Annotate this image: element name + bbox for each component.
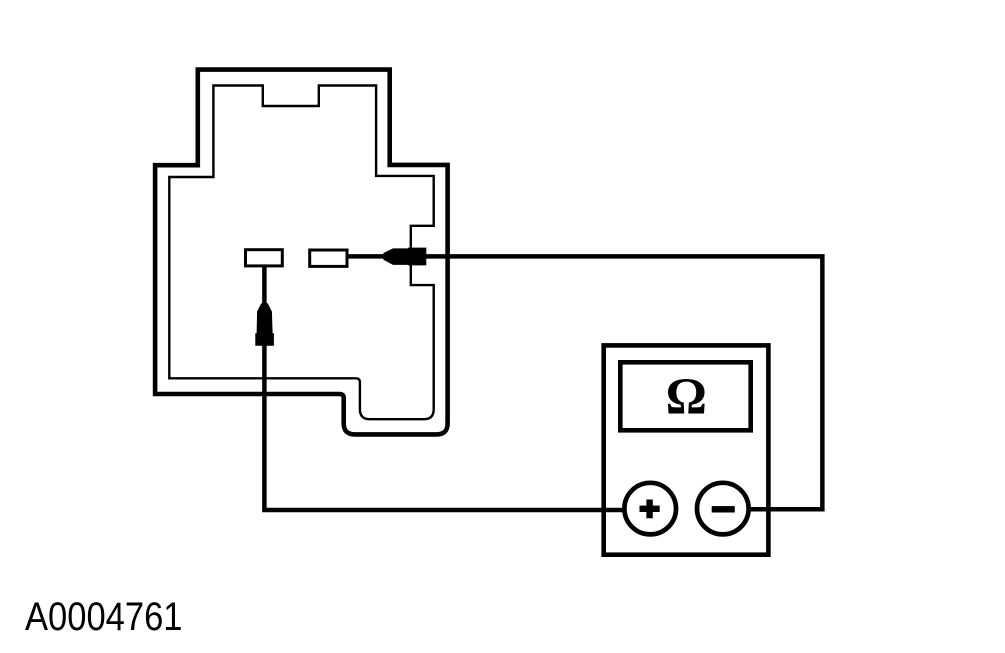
probe tip horizontal <box>383 248 426 266</box>
ohmmeter body <box>604 345 769 554</box>
plus sign <box>640 506 660 512</box>
test lead wire left (to positive jack) <box>264 266 650 510</box>
minus sign <box>712 506 735 512</box>
positive jack <box>624 483 676 535</box>
terminal cavity right <box>310 250 347 266</box>
negative jack <box>697 483 749 535</box>
connector housing inner wall <box>169 86 433 420</box>
meter display window <box>620 362 750 430</box>
svg-text:Ω: Ω <box>666 369 707 426</box>
svg-text:A0004761: A0004761 <box>25 595 183 639</box>
test lead wire right (to negative jack) <box>349 256 823 509</box>
probe tip vertical <box>255 303 274 346</box>
connector housing outer wall <box>155 70 448 435</box>
terminal cavity left <box>246 250 283 266</box>
